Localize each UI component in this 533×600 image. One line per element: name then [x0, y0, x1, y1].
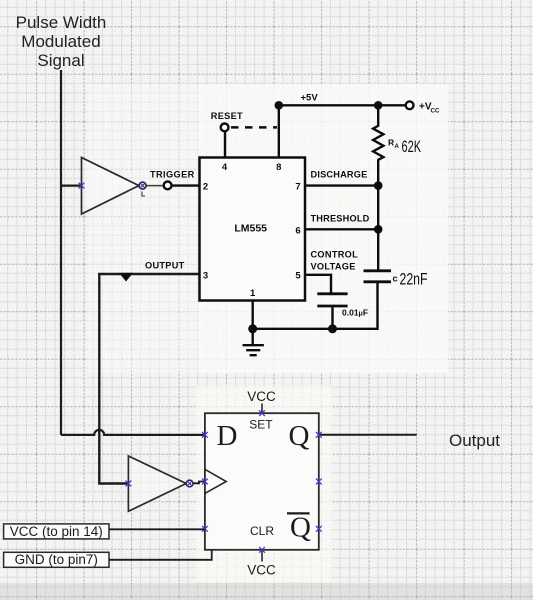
clock edge triangle: [205, 469, 226, 493]
node +Vcc terminal circle: [406, 101, 414, 109]
junction pin1 ground: [248, 324, 257, 333]
wire pin 8 to +5V rail: [278, 105, 280, 157]
junction C2 ground: [328, 324, 337, 333]
wire D input with hop over line B: [61, 430, 205, 435]
pin marker X FF lower left: [202, 526, 208, 532]
svg-text:RESET: RESET: [211, 111, 243, 121]
svg-text:VCC: VCC: [247, 563, 276, 578]
bottom gray band: [0, 583, 533, 600]
wire PWM vertical line A: [60, 70, 62, 435]
ground: [243, 329, 264, 355]
pin marker X input U2: [79, 183, 85, 189]
svg-text:8: 8: [276, 162, 281, 173]
svg-text:7: 7: [295, 182, 300, 193]
capacitor C2 0.01uF: [317, 294, 347, 306]
svg-text:4: 4: [222, 162, 228, 173]
wire C2 bottom to ground rail: [331, 306, 333, 329]
svg-text:R: R: [388, 138, 394, 148]
resistor RA: [373, 105, 383, 184]
svg-text:CLR: CLR: [250, 524, 274, 538]
pasted 555 schematic white area: [88, 84, 199, 373]
wire dashed reset to rail: [231, 126, 277, 129]
wire inverter output to pin 2 (thin segment): [144, 185, 164, 187]
wire VCC stub top: [261, 404, 263, 414]
wire pin 5 to cap C2: [305, 275, 331, 293]
wire trigger terminal to pin 2: [170, 184, 200, 186]
svg-text:Output: Output: [449, 431, 500, 450]
svg-text:THRESHOLD: THRESHOLD: [311, 214, 370, 224]
svg-text:A: A: [395, 144, 400, 150]
svg-text:Q: Q: [290, 511, 311, 543]
junction pin8 rail: [275, 101, 284, 110]
pin marker X U4 input: [126, 481, 132, 487]
svg-text:Q: Q: [289, 420, 310, 452]
svg-text:OUTPUT: OUTPUT: [145, 261, 185, 271]
wire GND box to FF bottom: [109, 550, 212, 560]
label box VCC to pin 14: [4, 524, 109, 539]
svg-text:CONTROL: CONTROL: [311, 250, 359, 260]
pin marker X FF bottom: [259, 547, 265, 553]
svg-text:SET: SET: [249, 418, 273, 432]
wire pin 1 down: [251, 301, 253, 329]
node trigger terminal circle: [164, 182, 172, 190]
op-amp inverter U4 (bottom): [128, 456, 186, 511]
wire pin 6 threshold: [305, 228, 378, 230]
junction discharge: [374, 181, 383, 190]
junction rail resistor: [374, 101, 383, 110]
svg-text:CC: CC: [431, 108, 440, 115]
wire stub from line A to inverter input: [61, 185, 82, 187]
svg-text:VOLTAGE: VOLTAGE: [311, 262, 356, 272]
wire rail discharge to threshold: [377, 186, 379, 230]
pin marker X FF Qbar: [316, 526, 322, 532]
pin marker X FF right mid: [316, 479, 322, 485]
svg-text:Pulse Width: Pulse Width: [16, 13, 107, 32]
op-amp U1 LM555 box: [200, 158, 306, 301]
svg-text:22nF: 22nF: [400, 271, 428, 289]
wire pin 7 discharge: [305, 184, 378, 186]
svg-text:0.01μF: 0.01μF: [342, 308, 368, 318]
svg-text:62K: 62K: [402, 138, 422, 156]
pin marker X bubble U2: [140, 183, 146, 189]
svg-text:VCC (to pin 14): VCC (to pin 14): [10, 524, 103, 539]
pasted flip-flop white area: [196, 386, 332, 582]
label: Pulse Width Modulated Signal: [16, 13, 107, 70]
pin marker X FF D: [202, 432, 208, 438]
svg-text:D: D: [217, 420, 238, 452]
svg-text:+5V: +5V: [301, 93, 319, 104]
wire VCC box to FF: [109, 528, 205, 530]
svg-text:GND (to pin7): GND (to pin7): [15, 552, 98, 567]
inverter U2 output bubble: [139, 182, 146, 189]
svg-text:2: 2: [203, 182, 208, 193]
capacitor C1 22nF: [364, 271, 392, 282]
svg-text:1: 1: [250, 288, 256, 299]
wire +5V rail: [279, 104, 406, 106]
svg-text:c: c: [393, 274, 398, 284]
wire Q output: [319, 434, 417, 436]
svg-text:6: 6: [295, 226, 300, 237]
svg-text:L: L: [141, 192, 146, 199]
node RESET terminal circle: [221, 124, 229, 132]
pin marker X FF clock: [202, 479, 208, 485]
inverter U4 output bubble: [186, 480, 193, 487]
wire VCC stub bottom: [261, 550, 263, 562]
svg-text:3: 3: [203, 271, 208, 282]
svg-text:LM555: LM555: [234, 223, 267, 235]
op-amp inverter U2 (top): [82, 158, 139, 215]
wire rail threshold to cap C1: [377, 229, 379, 270]
svg-text:DISCHARGE: DISCHARGE: [311, 170, 368, 180]
svg-text:TRIGGER: TRIGGER: [150, 169, 195, 179]
svg-text:VCC: VCC: [247, 389, 276, 404]
junction threshold: [374, 225, 383, 234]
label box GND to pin7: [4, 552, 109, 567]
wire bottom ground rail: [253, 282, 378, 329]
D flip-flop U3 box: [205, 413, 319, 550]
pin marker X FF top: [259, 410, 265, 416]
svg-text:Signal: Signal: [37, 51, 84, 70]
pin marker X FF Q: [316, 432, 322, 438]
svg-text:5: 5: [295, 271, 301, 282]
wire output line B: pin3 left, down, to inverter2 input: [99, 274, 199, 484]
pin marker X U4 bubble: [187, 481, 193, 487]
wire pin 4 reset: [224, 132, 226, 158]
wire bubble to clock pin: [193, 482, 205, 484]
svg-text:Modulated: Modulated: [21, 32, 100, 51]
junction arrow on output wire: [119, 273, 133, 282]
